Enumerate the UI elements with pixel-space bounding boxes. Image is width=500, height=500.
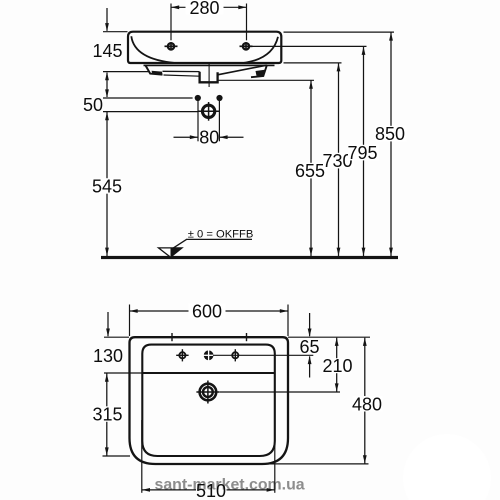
svg-text:± 0 = OKFFB: ± 0 = OKFFB	[188, 228, 254, 240]
svg-text:210: 210	[322, 356, 352, 376]
svg-text:545: 545	[92, 177, 122, 197]
svg-text:600: 600	[192, 301, 222, 321]
svg-text:65: 65	[299, 337, 319, 357]
svg-text:280: 280	[189, 0, 219, 18]
svg-text:315: 315	[92, 405, 122, 425]
svg-text:sant-market.com.ua: sant-market.com.ua	[155, 477, 305, 494]
svg-text:480: 480	[352, 394, 382, 414]
svg-text:80: 80	[199, 128, 219, 148]
svg-text:510: 510	[196, 481, 226, 500]
svg-text:145: 145	[92, 41, 122, 61]
svg-text:655: 655	[295, 161, 325, 181]
svg-text:50: 50	[83, 95, 103, 115]
svg-text:795: 795	[347, 143, 377, 163]
svg-text:130: 130	[93, 346, 123, 366]
svg-text:850: 850	[375, 124, 405, 144]
